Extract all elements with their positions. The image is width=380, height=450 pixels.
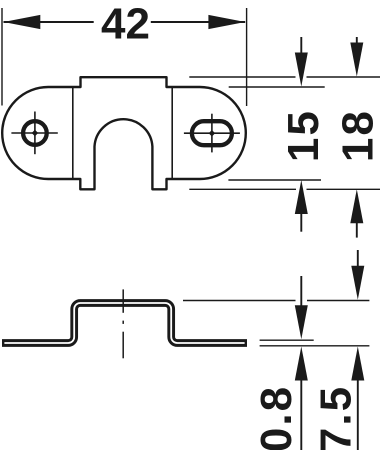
right hole crosshair horizontal [184,132,240,134]
side view centerline dash lower [122,332,124,359]
right hole crosshair vertical [211,114,213,153]
dimension line 42 left segment [4,21,94,23]
right slotted hole [192,121,232,145]
dim 0.8 upper shaft [300,276,302,308]
bend line left [72,87,74,179]
dim 15 upper arrowhead [295,53,308,87]
dim 18 lower arrowhead [350,189,363,223]
dimension line 42 right segment [151,21,245,23]
bend line right [171,87,173,179]
extension line top flat (for 7.5) [183,300,296,302]
dim 18 upper arrowhead [350,43,363,77]
dim 7.5 upper arrowhead [351,266,364,300]
side view: sheet profile (black band) [2,303,247,343]
left hole ring [23,121,47,145]
dim 18 lower shaft [356,221,358,238]
left hole crosshair vertical [34,112,36,155]
dim 15 lower arrowhead [295,180,308,214]
svg-text:0.8: 0.8 [252,385,301,450]
arrowhead 42 right [208,15,245,29]
extension line sheet bottom surface [260,345,370,347]
svg-text:7.5: 7.5 [312,385,361,450]
dim 0.8 lower shaft [300,378,302,450]
arrowhead 42 left [4,15,41,29]
extension line sheet top surface (for 0.8) [260,339,314,341]
svg-text:15: 15 [279,109,328,162]
left hole crosshair horizontal [11,132,57,134]
extension line feet bottom (for 18) [189,188,296,190]
svg-text:42: 42 [101,0,150,49]
extension line body top (for 15) [229,86,325,88]
dim 15 lower shaft [300,212,302,232]
dim 7.5 lower arrowhead [351,347,364,381]
dim 7.5 lower shaft [357,378,359,450]
dim 0.8 upper arrowhead [295,305,308,339]
dim 0.8 lower arrowhead [295,347,308,381]
dim 15 upper shaft [300,37,302,56]
dim 7.5 upper shaft [357,250,359,268]
extension line body bottom (for 15) [228,179,321,181]
side view centerline dot [122,321,124,324]
right hole center dot [209,130,216,137]
svg-text:18: 18 [334,109,380,162]
extension line left of dim 42 [1,8,3,106]
dim 18 upper shaft [356,37,358,46]
side view centerline dash [122,289,124,312]
extension line right of dim 42 [246,8,248,106]
left hole center dot [32,130,39,137]
top view: bracket outline [2,77,246,189]
extension line tab top (for 18) [189,76,295,78]
side view: sheet profile inner white line [4,303,244,343]
